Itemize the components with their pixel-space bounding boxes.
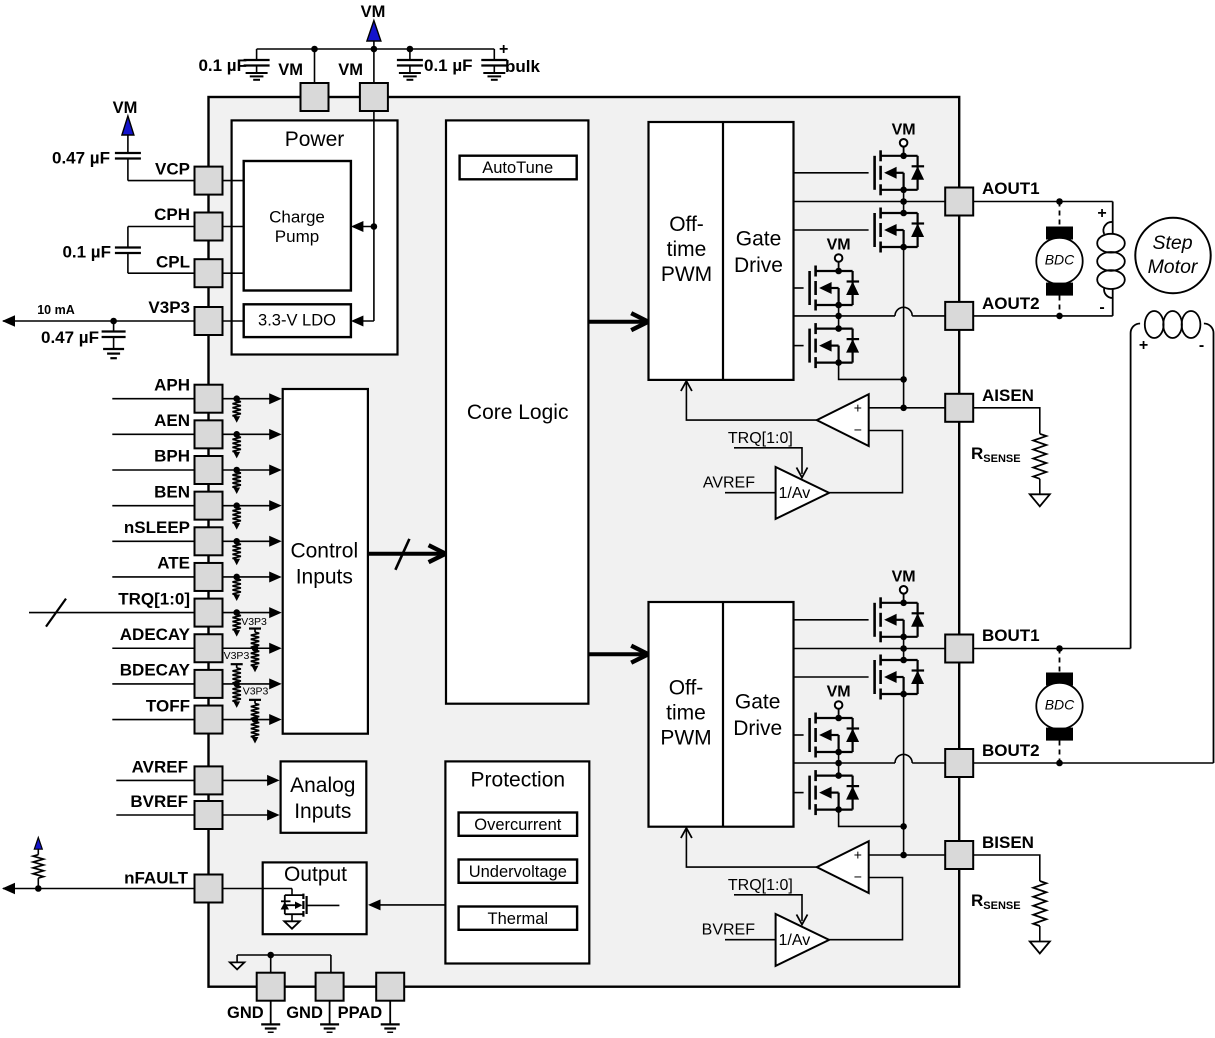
svg-text:AOUT2: AOUT2 xyxy=(982,294,1040,313)
svg-text:AOUT1: AOUT1 xyxy=(982,179,1040,198)
svg-text:CPH: CPH xyxy=(154,205,190,224)
svg-text:1/Av: 1/Av xyxy=(779,485,811,502)
svg-text:VM: VM xyxy=(278,61,303,79)
svg-text:3.3-V LDO: 3.3-V LDO xyxy=(258,312,336,330)
svg-text:bulk: bulk xyxy=(505,57,540,76)
svg-text:+: + xyxy=(854,847,862,863)
svg-text:-: - xyxy=(1099,299,1104,316)
svg-text:GND: GND xyxy=(227,1004,264,1022)
svg-text:+: + xyxy=(499,41,508,58)
svg-text:VCP: VCP xyxy=(155,160,190,179)
svg-text:Inputs: Inputs xyxy=(296,566,353,589)
svg-text:nSLEEP: nSLEEP xyxy=(124,518,190,537)
svg-text:time: time xyxy=(666,702,706,725)
svg-text:PWM: PWM xyxy=(660,727,711,750)
svg-text:VM: VM xyxy=(827,237,851,254)
svg-text:V3P3: V3P3 xyxy=(241,616,267,628)
svg-text:V3P3: V3P3 xyxy=(148,298,190,317)
svg-text:Undervoltage: Undervoltage xyxy=(469,863,567,881)
svg-text:Step: Step xyxy=(1152,232,1192,254)
svg-text:1/Av: 1/Av xyxy=(779,932,811,949)
svg-text:10 mA: 10 mA xyxy=(37,303,75,317)
svg-text:ADECAY: ADECAY xyxy=(120,625,191,644)
svg-text:TRQ[1:0]: TRQ[1:0] xyxy=(728,877,793,894)
svg-text:Pump: Pump xyxy=(275,227,319,246)
svg-text:BISEN: BISEN xyxy=(982,833,1034,852)
svg-text:0.1 µF: 0.1 µF xyxy=(424,56,473,75)
svg-text:+: + xyxy=(854,400,862,416)
svg-text:time: time xyxy=(667,238,707,261)
svg-text:AutoTune: AutoTune xyxy=(482,159,553,177)
svg-text:+: + xyxy=(1097,205,1106,222)
svg-text:−: − xyxy=(854,869,862,885)
svg-text:AISEN: AISEN xyxy=(982,386,1034,405)
svg-text:BVREF: BVREF xyxy=(702,922,756,939)
svg-text:BDECAY: BDECAY xyxy=(120,661,191,680)
svg-text:0.1 µF: 0.1 µF xyxy=(198,56,247,75)
svg-text:TRQ[1:0]: TRQ[1:0] xyxy=(118,589,190,608)
svg-text:BDC: BDC xyxy=(1045,697,1075,713)
svg-text:nFAULT: nFAULT xyxy=(124,869,189,888)
svg-text:Off-: Off- xyxy=(669,677,704,700)
svg-text:Motor: Motor xyxy=(1148,256,1199,278)
svg-text:0.47 µF: 0.47 µF xyxy=(52,149,110,168)
svg-text:Control: Control xyxy=(290,540,358,563)
svg-text:CPL: CPL xyxy=(156,253,190,272)
svg-text:Core Logic: Core Logic xyxy=(467,401,569,424)
svg-text:Output: Output xyxy=(284,863,347,886)
svg-text:AVREF: AVREF xyxy=(703,475,755,492)
svg-text:+: + xyxy=(1139,337,1148,354)
svg-text:Off-: Off- xyxy=(669,213,704,236)
svg-text:Gate: Gate xyxy=(736,228,782,251)
svg-text:V3P3: V3P3 xyxy=(243,685,269,697)
svg-text:BVREF: BVREF xyxy=(130,792,188,811)
svg-text:−: − xyxy=(854,422,862,438)
svg-text:VM: VM xyxy=(892,122,916,139)
svg-text:Thermal: Thermal xyxy=(488,910,549,928)
svg-text:VM: VM xyxy=(892,569,916,586)
svg-text:Inputs: Inputs xyxy=(294,800,351,823)
svg-text:AEN: AEN xyxy=(154,411,190,430)
svg-text:BDC: BDC xyxy=(1045,252,1075,268)
svg-text:VM: VM xyxy=(113,99,138,117)
svg-text:AVREF: AVREF xyxy=(132,757,188,776)
svg-text:VM: VM xyxy=(361,3,386,21)
svg-text:Drive: Drive xyxy=(733,717,782,740)
svg-text:Charge: Charge xyxy=(269,208,325,227)
svg-text:Protection: Protection xyxy=(471,769,566,792)
svg-text:TOFF: TOFF xyxy=(146,696,190,715)
svg-text:PPAD: PPAD xyxy=(338,1004,383,1022)
svg-text:PWM: PWM xyxy=(661,263,712,286)
svg-text:APH: APH xyxy=(154,375,190,394)
svg-text:0.47 µF: 0.47 µF xyxy=(41,328,99,347)
svg-text:Gate: Gate xyxy=(735,691,781,714)
svg-text:BEN: BEN xyxy=(154,482,190,501)
svg-text:BPH: BPH xyxy=(154,447,190,466)
svg-text:Overcurrent: Overcurrent xyxy=(474,816,562,834)
svg-text:TRQ[1:0]: TRQ[1:0] xyxy=(728,430,793,447)
svg-text:VM: VM xyxy=(827,684,851,701)
svg-text:ATE: ATE xyxy=(157,554,190,573)
svg-text:BOUT2: BOUT2 xyxy=(982,741,1040,760)
svg-text:0.1 µF: 0.1 µF xyxy=(62,243,111,262)
svg-text:Power: Power xyxy=(285,128,345,151)
svg-text:-: - xyxy=(1199,337,1204,354)
svg-text:BOUT1: BOUT1 xyxy=(982,626,1040,645)
svg-text:Analog: Analog xyxy=(290,774,355,797)
svg-text:GND: GND xyxy=(286,1004,323,1022)
svg-text:V3P3: V3P3 xyxy=(224,650,250,662)
svg-text:VM: VM xyxy=(338,61,363,79)
svg-text:Drive: Drive xyxy=(734,254,783,277)
